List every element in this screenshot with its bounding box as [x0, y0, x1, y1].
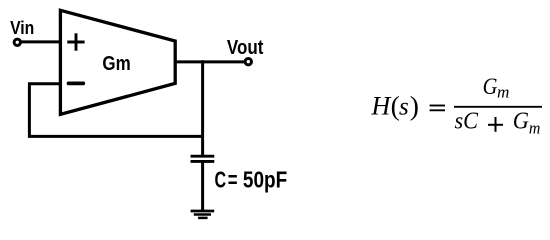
svg-text:50pF: 50pF [243, 166, 287, 192]
svg-text:C: C [215, 166, 227, 192]
capacitor C1 plates [191, 156, 215, 161]
formula fraction bar [454, 106, 542, 108]
formula numerator G_m [483, 74, 510, 102]
svg-text:sC: sC [455, 109, 479, 135]
formula denominator sC + G_m [455, 109, 541, 138]
wire output to Vout [175, 60, 244, 63]
svg-text:H: H [371, 92, 392, 121]
svg-text:G: G [513, 109, 529, 135]
svg-text:m: m [529, 119, 541, 138]
svg-text:Gm: Gm [102, 52, 130, 75]
terminal Vin [14, 39, 20, 45]
value label C = 50pF [215, 166, 288, 192]
svg-text:): ) [410, 90, 419, 121]
formula equals sign [430, 106, 445, 111]
svg-text:Vout: Vout [227, 37, 264, 59]
svg-text:Vin: Vin [10, 17, 34, 38]
pin - (inverting input) [69, 82, 84, 86]
svg-text:=: = [228, 166, 238, 192]
wire Vin to + input [21, 40, 62, 43]
ground [191, 211, 215, 218]
svg-text:m: m [497, 83, 509, 102]
formula H(s) [371, 90, 419, 121]
op-amp U1 Gm (OTA trapezoid body) [60, 10, 175, 114]
svg-text:G: G [483, 74, 498, 99]
svg-text:s: s [399, 94, 409, 121]
wire feedback loop (- input to output node) [29, 84, 202, 137]
pin + (non-inverting input) [67, 33, 84, 50]
wire output node down to capacitor [201, 60, 204, 155]
wire capacitor to ground [201, 162, 204, 211]
terminal Vout [245, 59, 251, 65]
